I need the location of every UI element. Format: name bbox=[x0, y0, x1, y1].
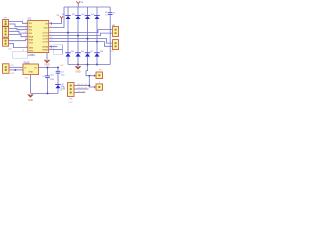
svg-text:SENB: SENB bbox=[42, 49, 48, 51]
motor connector M1 bbox=[112, 25, 118, 37]
wire IC VS pin to supply arrow bbox=[49, 20, 62, 24]
voltage regulator IC2 78L05 bbox=[23, 62, 39, 79]
svg-text:14: 14 bbox=[50, 40, 52, 42]
svg-text:JP2: JP2 bbox=[69, 99, 72, 101]
net labels on power connector wires bbox=[77, 84, 88, 93]
bottom ground rail bbox=[31, 92, 58, 94]
connector JP3 bbox=[3, 38, 13, 51]
svg-text:5: 5 bbox=[26, 22, 27, 24]
svg-text:3: 3 bbox=[50, 34, 51, 36]
capacitor C6 (VS decoupling, top right) bbox=[105, 12, 115, 16]
junction at C1 bottom on ground rail bbox=[47, 92, 49, 94]
junction on JP4 pin2 wire bbox=[14, 69, 16, 71]
svg-text:8: 8 bbox=[26, 46, 27, 48]
wire OUT2 to motor connector M1 pin2 bbox=[49, 33, 113, 36]
diode D9 bbox=[55, 84, 66, 90]
svg-text:1n: 1n bbox=[113, 12, 115, 14]
capacitor C2 / diode D9 branch bbox=[57, 68, 59, 94]
svg-text:10: 10 bbox=[25, 28, 27, 30]
3-pin power connector JP5 bbox=[60, 83, 74, 105]
note frame box (lower-left) bbox=[13, 50, 28, 58]
svg-text:OUT3: OUT3 bbox=[42, 38, 48, 40]
svg-text:2: 2 bbox=[50, 31, 51, 33]
wire JP3 pin1 to IC bbox=[9, 40, 28, 41]
svg-text:ENA: ENA bbox=[29, 35, 34, 38]
connector JP4 (power in) bbox=[3, 64, 16, 75]
capacitor C2 bbox=[56, 71, 66, 77]
svg-text:GND: GND bbox=[10, 73, 15, 75]
diode column D3/D7 bbox=[82, 7, 95, 65]
svg-text:VDD: VDD bbox=[44, 27, 49, 29]
diode column D4/D8 bbox=[91, 7, 104, 65]
svg-text:16V: 16V bbox=[50, 79, 54, 81]
svg-text:11: 11 bbox=[25, 38, 27, 40]
wire SENSB bbox=[49, 49, 63, 51]
svg-text:VO: VO bbox=[34, 68, 37, 70]
svg-text:GND: GND bbox=[44, 64, 49, 66]
regulator GND drop bbox=[30, 75, 32, 94]
3-pin power connector wires bbox=[74, 85, 89, 87]
wire regulator output +5V bbox=[39, 67, 59, 69]
ground symbol mid rail bbox=[75, 65, 81, 74]
svg-text:GND: GND bbox=[24, 78, 29, 80]
capacitor C1 branch bbox=[47, 68, 49, 94]
svg-text:SEN: SEN bbox=[29, 47, 34, 49]
wire SENSA bbox=[49, 46, 58, 48]
svg-text:+5V-VLOG: +5V-VLOG bbox=[77, 88, 87, 90]
svg-text:SENA: SENA bbox=[42, 45, 48, 48]
svg-text:1: 1 bbox=[50, 45, 51, 47]
svg-text:L298N: L298N bbox=[28, 54, 35, 57]
pin tick on SENSA wire bbox=[50, 45, 52, 47]
svg-text:+5V: +5V bbox=[59, 65, 63, 67]
svg-text:4: 4 bbox=[50, 22, 51, 24]
svg-text:PWR: PWR bbox=[69, 102, 74, 104]
wire OUT4 to motor connector M2 pin2 bbox=[49, 42, 113, 47]
pin tick on VS wire bbox=[51, 22, 53, 24]
svg-text:VIN: VIN bbox=[10, 65, 14, 67]
svg-text:GND: GND bbox=[28, 71, 33, 73]
svg-text:GND: GND bbox=[75, 71, 80, 73]
svg-text:12: 12 bbox=[25, 32, 27, 34]
wire regulator input from JP4 bbox=[9, 66, 23, 68]
svg-text:IC1: IC1 bbox=[28, 18, 32, 21]
svg-text:GND-PW: GND-PW bbox=[77, 91, 86, 93]
supply symbol VS (top) bbox=[76, 1, 84, 7]
wire JP1 pin2 to IC bbox=[9, 24, 28, 27]
diode column D1/D5 bbox=[62, 7, 75, 65]
junction power connector pin1 branch bbox=[88, 85, 90, 87]
top VS rail bbox=[64, 6, 110, 8]
capacitor C1 bbox=[43, 74, 55, 81]
wire JP4 pin2 bbox=[9, 69, 23, 71]
svg-text:GND: GND bbox=[29, 51, 34, 53]
wire IC VSS pin to top rail bbox=[49, 7, 64, 28]
branch to pads E/F bbox=[86, 65, 96, 88]
svg-text:78L05: 78L05 bbox=[23, 62, 30, 64]
svg-text:VMOT-+5V: VMOT-+5V bbox=[77, 84, 88, 86]
rail riser to C6 bbox=[109, 7, 111, 65]
note frame box (sense area) bbox=[54, 45, 63, 55]
wire JP3 pin2 to IC bbox=[9, 44, 28, 48]
svg-text:1: 1 bbox=[99, 82, 100, 84]
wire JP1 pin1 to IC bbox=[9, 22, 28, 24]
svg-text:1n: 1n bbox=[105, 14, 107, 16]
diode column D2/D6 bbox=[72, 7, 85, 65]
svg-text:VSS: VSS bbox=[29, 42, 34, 44]
svg-text:7: 7 bbox=[26, 25, 27, 27]
junction at C1 top bbox=[47, 67, 49, 69]
svg-text:OUT1: OUT1 bbox=[42, 32, 48, 34]
svg-text:OUT4: OUT4 bbox=[42, 41, 48, 43]
connector JP1 bbox=[3, 18, 9, 27]
svg-text:OUT2: OUT2 bbox=[42, 35, 48, 37]
svg-text:9: 9 bbox=[50, 26, 51, 28]
connector JP2 bbox=[3, 27, 9, 38]
wire JP2 pin2 to IC bbox=[9, 31, 28, 33]
pad F (+5V tap) bbox=[94, 84, 102, 90]
supply symbol VS (at IC pin) bbox=[56, 15, 63, 20]
wire OUT3 to motor connector M2 pin1 bbox=[49, 39, 113, 44]
ground symbol under IC bbox=[44, 53, 50, 67]
wire OUT1 to motor connector M1 pin1 bbox=[49, 30, 113, 33]
svg-text:1: 1 bbox=[22, 19, 23, 21]
wire JP2 pin3 to IC bbox=[9, 34, 28, 36]
svg-text:15: 15 bbox=[50, 48, 52, 50]
svg-text:6: 6 bbox=[26, 35, 27, 37]
pad E (VS tap) bbox=[94, 69, 102, 83]
svg-text:ENB: ENB bbox=[29, 39, 34, 41]
junction at C2 top (+5V node) bbox=[57, 67, 59, 69]
junction pad E branch bbox=[88, 75, 90, 77]
svg-text:13: 13 bbox=[50, 37, 52, 39]
svg-text:GND: GND bbox=[8, 49, 13, 51]
wire JP2 pin1 to IC bbox=[9, 28, 28, 29]
IC U1 L298N bbox=[25, 18, 53, 57]
motor connector M2 bbox=[111, 40, 119, 54]
svg-text:GND: GND bbox=[28, 100, 33, 102]
svg-text:PW: PW bbox=[62, 87, 65, 89]
mid ground rail bbox=[68, 64, 110, 66]
ground symbol bottom rail bbox=[28, 94, 34, 101]
